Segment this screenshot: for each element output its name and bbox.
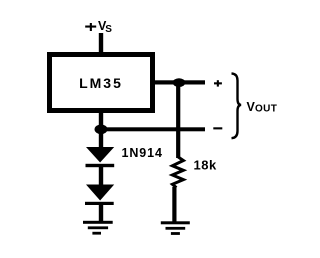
- diode D1 (1N914): [86, 147, 115, 167]
- wire D1 cathode to D2 anode: [99, 167, 103, 185]
- diode D2 (1N914): [85, 185, 114, 206]
- junction ground-pin node: [95, 125, 108, 135]
- ground (diode branch): [83, 221, 113, 235]
- wire +Vs to LM35 top pin: [99, 33, 103, 53]
- minus terminal mark: [213, 127, 222, 129]
- wire D2 cathode to ground: [99, 205, 103, 222]
- plus terminal mark: [214, 80, 222, 86]
- IC U1 LM35: [50, 55, 153, 111]
- resistor R1 zigzag: [172, 157, 183, 188]
- svg-text:1N914: 1N914: [122, 146, 163, 160]
- svg-text:S: S: [105, 24, 112, 35]
- junction output node: [173, 78, 186, 87]
- output brace: [232, 73, 242, 138]
- wire LM35 ground pin down: [99, 111, 103, 134]
- node +VS supply label: [85, 19, 112, 35]
- wire ground-pin node to minus terminal: [101, 127, 205, 131]
- ground (resistor branch): [161, 221, 190, 235]
- svg-text:LM35: LM35: [79, 75, 123, 91]
- svg-text:OUT: OUT: [255, 104, 277, 115]
- svg-text:18k: 18k: [194, 158, 217, 173]
- wire R1 to ground: [172, 187, 176, 222]
- wire output node down to resistor R1: [176, 82, 180, 158]
- wire LM35 output pin to plus terminal: [155, 80, 205, 84]
- wire junction to diode D1 anode: [99, 131, 103, 148]
- node VOUT label: [247, 100, 278, 115]
